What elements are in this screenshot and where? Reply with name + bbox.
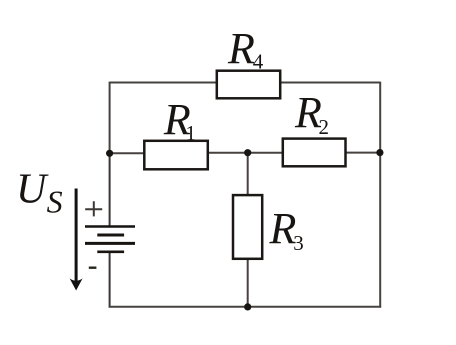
svg-text:2: 2 [319, 115, 330, 139]
wire R2 to node C [345, 152, 381, 154]
wire left upper (top corner to node A) [109, 82, 111, 154]
battery negative plate short upper [97, 234, 124, 237]
svg-text:R: R [227, 24, 255, 73]
wire right [379, 82, 381, 308]
battery positive plate long upper [85, 225, 135, 227]
svg-text:4: 4 [253, 50, 264, 74]
resistor R1 body [144, 141, 208, 170]
node B (middle junction) [244, 149, 251, 156]
wire node B to R2 [248, 152, 285, 154]
node D (bottom junction) [244, 303, 251, 310]
node A (left junction) [106, 150, 113, 157]
svg-text:R: R [269, 204, 297, 253]
voltage arrow shaft [75, 189, 78, 282]
svg-text:1: 1 [186, 121, 197, 145]
wire bottom [109, 306, 381, 308]
wire top-left segment [110, 82, 218, 84]
plus sign [85, 201, 102, 216]
wire R1 to node B [207, 152, 249, 154]
wire node B to R3 top [247, 153, 249, 197]
svg-text:U: U [16, 166, 49, 212]
resistor R3 body [233, 195, 262, 259]
svg-text:3: 3 [293, 231, 304, 255]
battery positive plate long lower [85, 242, 135, 245]
node C (right junction) [376, 149, 383, 156]
wire R3 bottom to node D [247, 258, 249, 308]
resistor R2 body [283, 139, 346, 167]
minus sign [89, 267, 97, 269]
resistor R4 body [217, 71, 280, 99]
voltage arrow head [70, 278, 83, 290]
battery negative plate short lower [97, 251, 124, 254]
wire battery negative lead [109, 252, 111, 308]
wire battery positive lead [109, 153, 111, 227]
wire top-right segment [279, 82, 380, 84]
wire node A to R1 [110, 152, 146, 154]
svg-text:S: S [47, 184, 63, 220]
